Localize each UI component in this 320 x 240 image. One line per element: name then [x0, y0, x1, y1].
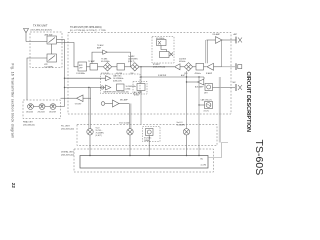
- wire drive to final unit: [61, 97, 77, 99]
- svg-text:2SC2166: 2SC2166: [26, 112, 33, 114]
- wire VCO2 to bus: [129, 135, 131, 156]
- wire final stage links: [33, 106, 64, 108]
- svg-text:TX DRV: TX DRV: [75, 103, 82, 105]
- node bus junctions: [89, 155, 90, 156]
- svg-text:S METER: S METER: [158, 75, 167, 77]
- svg-text:1.9-30MHz: 1.9-30MHz: [76, 73, 85, 75]
- wire TX MIX to MCF: [112, 66, 117, 68]
- wire RX amp to right: [214, 66, 222, 68]
- dashed box digital unit: [74, 149, 214, 172]
- svg-text:455kHz: 455kHz: [195, 73, 201, 75]
- dashed box TX RX antenna unit: [30, 32, 62, 68]
- wire MIC amp to VCO feed: [119, 103, 129, 105]
- wire 2nd LO to bus: [186, 135, 188, 156]
- svg-text:PLL UNIT: PLL UNIT: [61, 126, 70, 128]
- svg-text:(X57-3870-XX) (K,M,T): (X57-3870-XX) (K,M,T): [31, 30, 53, 32]
- amplifier AGC amp (left): [203, 77, 205, 79]
- wire AF line lower: [65, 87, 106, 89]
- wire drive amp input: [83, 97, 91, 99]
- svg-text:1.9-54MHz: 1.9-54MHz: [44, 66, 53, 68]
- svg-text:(K,M): (K,M): [134, 95, 139, 97]
- svg-text:20MHz: 20MHz: [144, 140, 150, 142]
- svg-text:TX AMP: TX AMP: [88, 60, 96, 63]
- wire relay to relay: [51, 44, 53, 54]
- dashed box PLL unit: [77, 125, 217, 146]
- svg-text:(K) : K TYPE (M) : M TYPE: (K) : K TYPE (M) : M TYPE (T) : T TYPE: [70, 30, 106, 32]
- wire VCO1 to bus: [89, 135, 91, 156]
- filter ceramic filter: [196, 63, 204, 70]
- dashed box X'tal osc: [143, 127, 161, 142]
- wire X'tal to bus: [148, 136, 150, 156]
- wire antenna to ANT relay: [26, 41, 47, 43]
- dashed box ALC unit: [133, 82, 147, 95]
- wire S meter line: [141, 76, 204, 78]
- transistor Q3 final: [50, 104, 56, 110]
- wire right control vertical 2: [220, 77, 222, 143]
- svg-text:22: 22: [11, 183, 16, 189]
- svg-text:IF AMP: IF AMP: [206, 72, 213, 75]
- svg-text:TX RX UNIT: TX RX UNIT: [33, 24, 48, 28]
- filter BPF: [78, 62, 87, 71]
- wire 2nd LO to 2nd MIX: [186, 71, 188, 129]
- wire 2nd MIX to CF: [193, 66, 196, 68]
- antenna ANT: [24, 29, 29, 42]
- wire TX AMP to TX MIX: [98, 66, 104, 68]
- wire MCF to 1st MIX: [125, 66, 131, 68]
- oscillator VCO1: [87, 129, 93, 135]
- wire REF OSC left: [199, 104, 205, 106]
- amplifier carrier amp 2: [101, 86, 104, 89]
- svg-text:2SC3133: 2SC3133: [38, 112, 45, 114]
- svg-text:10.24MHz: 10.24MHz: [177, 125, 185, 127]
- wire to 2nd MIX: [180, 66, 184, 68]
- node TX feed junctions: [64, 78, 65, 79]
- filter X'tal filter B: [160, 52, 170, 58]
- svg-text:45.05M: 45.05M: [116, 73, 123, 75]
- final unit dashed box: [23, 100, 61, 119]
- wire ANT SW to TX feed vertical: [57, 39, 65, 41]
- wire IF internal: [161, 46, 167, 52]
- transistor Q1 final: [28, 104, 34, 110]
- dashed box IF unit: [152, 37, 174, 64]
- relay/filter LPF: [47, 54, 57, 62]
- svg-text:(X48-3170-00): (X48-3170-00): [153, 67, 166, 69]
- vertical RX line from jack: [221, 40, 223, 67]
- wire right control vertical: [218, 77, 220, 143]
- svg-text:45.05MHz: 45.05MHz: [101, 61, 110, 63]
- svg-text:TX-RX UNIT (X57-3870-00/01): TX-RX UNIT (X57-3870-00/01): [70, 27, 102, 29]
- svg-text:(X46-3290-00): (X46-3290-00): [61, 155, 74, 157]
- amplifier carrier amp 1: [106, 76, 111, 81]
- svg-text:DIGITAL UNIT: DIGITAL UNIT: [61, 151, 75, 154]
- svg-text:2SC1969: 2SC1969: [49, 112, 56, 114]
- svg-text:AGC AMP: AGC AMP: [195, 86, 204, 89]
- svg-text:RF AMP: RF AMP: [213, 33, 221, 36]
- amplifier MIC amp: [101, 102, 105, 106]
- wire 1st MIX to 2nd MIX: [139, 66, 174, 68]
- svg-text:VCO 10.24M: VCO 10.24M: [119, 122, 130, 124]
- amplifier IF amp (left): [175, 64, 181, 70]
- svg-text:CIRCUIT DESCRIPTION: CIRCUIT DESCRIPTION: [245, 72, 251, 133]
- bus control rectangle: [80, 156, 208, 169]
- svg-text:CAR OSC (T): CAR OSC (T): [201, 99, 213, 102]
- svg-text:(X45-3080-00): (X45-3080-00): [23, 124, 35, 126]
- svg-text:(K,M,T): (K,M,T): [128, 61, 135, 63]
- svg-text:Fig. 16 Transmitter section: Fig. 16 Transmitter section block diagra…: [11, 64, 15, 139]
- svg-text:(USB,CW): (USB,CW): [113, 81, 122, 83]
- svg-text:TS-60S: TS-60S: [253, 140, 264, 176]
- wire bus to right edge: [208, 143, 228, 158]
- svg-text:FINAL UNIT: FINAL UNIT: [23, 121, 34, 124]
- svg-text:X2 (T): X2 (T): [204, 110, 210, 112]
- wire LPF to final unit input: [27, 58, 47, 100]
- wire AF line upper: [65, 77, 106, 79]
- wire driver feed double line: [206, 40, 208, 63]
- svg-text:455kHz: 455kHz: [179, 61, 185, 63]
- svg-text:MIC AMP: MIC AMP: [120, 98, 129, 101]
- svg-text:AGC: AGC: [181, 74, 186, 77]
- detector box with circle: [205, 84, 213, 91]
- wire TX feed vertical (relay to final output): [64, 40, 66, 107]
- oscillator X'tal: [146, 129, 154, 136]
- wire CF to RX amp: [204, 66, 207, 68]
- svg-text:(LSB): (LSB): [126, 88, 131, 90]
- svg-text:uCOM: uCOM: [201, 165, 207, 167]
- connector KEY jack: [222, 66, 236, 68]
- dashed box TX-RX unit main: [68, 33, 231, 115]
- svg-text:CARRIER UNIT (X50-0000-00): CARRIER UNIT (X50-0000-00): [103, 91, 129, 94]
- filter carrier filter: [117, 84, 125, 91]
- wire BPF to TX AMP: [87, 66, 91, 68]
- wire ANT SW to BPF: [57, 43, 79, 67]
- svg-text:IC1 (K,M): IC1 (K,M): [101, 73, 109, 75]
- wire VCO2 feed double line: [129, 104, 131, 129]
- svg-text:(K,M,T): (K,M,T): [96, 135, 103, 137]
- wire driver to ANT jack: [222, 39, 236, 41]
- wire REF vertical: [198, 77, 200, 156]
- amplifier RX IF amp (left): [207, 63, 214, 70]
- amplifier TX drive (left): [77, 95, 84, 102]
- wire VCO1 feed double line: [89, 88, 91, 129]
- svg-text:(X50-3230-00): (X50-3230-00): [61, 129, 74, 131]
- transistor Q2 final: [39, 104, 45, 110]
- filter MCF: [117, 64, 125, 71]
- dashed box carrier unit: [101, 74, 141, 94]
- connector MIC jack: [213, 87, 236, 89]
- filter ALC filter on PLL feed: [140, 67, 142, 84]
- wire AGC to LO junction: [187, 81, 198, 83]
